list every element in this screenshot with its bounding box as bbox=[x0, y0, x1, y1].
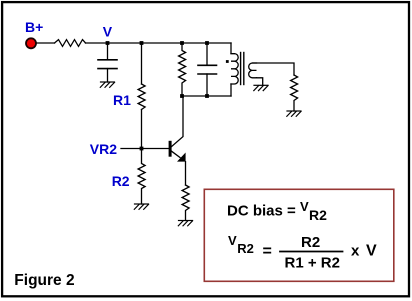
capacitor (tank) bbox=[198, 65, 217, 74]
wire emitter down bbox=[185, 162, 187, 185]
ground (secondary) bbox=[254, 85, 268, 90]
node junction R1 top bbox=[140, 41, 144, 45]
transformer T1 core bbox=[241, 53, 244, 85]
svg-text:R2: R2 bbox=[237, 241, 254, 256]
ground (R2) bbox=[134, 204, 148, 209]
node junction VR2 bbox=[140, 147, 144, 151]
wire top rail bbox=[86, 42, 232, 44]
transformer T1 secondary winding bbox=[249, 63, 257, 78]
wire bottom rail bbox=[182, 95, 231, 97]
svg-text:x: x bbox=[351, 242, 360, 259]
resistor R1 bbox=[138, 84, 145, 110]
svg-text:V: V bbox=[300, 199, 309, 214]
transistor Q1 base bar bbox=[169, 141, 172, 157]
wire secondary top to load resistor bbox=[252, 63, 294, 75]
svg-text:B+: B+ bbox=[25, 19, 43, 35]
ground (C1) bbox=[100, 82, 114, 87]
node junction V bbox=[106, 41, 110, 45]
svg-text:V: V bbox=[103, 23, 113, 39]
svg-text:VR2: VR2 bbox=[90, 141, 117, 157]
svg-text:R1: R1 bbox=[113, 92, 131, 108]
node junction tank resistor bottom bbox=[180, 94, 184, 98]
transistor Q1 emitter lead bbox=[172, 151, 181, 157]
svg-text:R2: R2 bbox=[309, 207, 327, 223]
capacitor C1 (bypass) bbox=[98, 60, 117, 69]
transformer T1 primary winding bbox=[231, 54, 238, 84]
wire V node to capacitor C1 bbox=[107, 43, 109, 60]
wire C1 to ground bbox=[107, 69, 109, 82]
svg-text:R1 + R2: R1 + R2 bbox=[285, 254, 340, 271]
wire B+ to series resistor bbox=[37, 42, 55, 44]
resistor R2 bbox=[138, 149, 145, 205]
transformer T1 phase dot bbox=[226, 60, 229, 63]
node junction tank cap top bbox=[205, 41, 209, 45]
resistor (tank, parallel) bbox=[179, 43, 186, 96]
node junction tank resistor top bbox=[180, 41, 184, 45]
terminal B+ (red dot) bbox=[26, 38, 36, 48]
resistor (emitter) bbox=[182, 185, 189, 221]
wire VR2 to transistor base bbox=[121, 148, 169, 150]
svg-text:R2: R2 bbox=[301, 234, 320, 251]
wire secondary bottom to ground bbox=[257, 78, 263, 86]
svg-text:Figure 2: Figure 2 bbox=[14, 272, 74, 289]
wire primary to bottom rail bbox=[230, 84, 232, 96]
transistor Q1 emitter arrow bbox=[177, 153, 186, 162]
formula box bbox=[204, 189, 393, 281]
svg-text:=: = bbox=[263, 243, 272, 260]
wire tank capacitor to bottom rail bbox=[206, 74, 208, 96]
transistor Q1 collector lead bbox=[172, 96, 184, 147]
svg-text:V: V bbox=[366, 242, 377, 259]
wire R1 to VR2 node bbox=[141, 110, 143, 149]
svg-text:R2: R2 bbox=[112, 173, 130, 189]
wire rail to R1 bbox=[141, 43, 143, 84]
resistor (series, horizontal) bbox=[55, 40, 86, 47]
ground (emitter) bbox=[178, 221, 192, 226]
resistor (secondary load) bbox=[291, 75, 298, 111]
ground (load resistor) bbox=[287, 111, 301, 116]
svg-text:V: V bbox=[228, 233, 237, 248]
node junction tank cap bottom bbox=[205, 94, 209, 98]
wire rail to tank capacitor bbox=[206, 43, 208, 65]
fraction bar bbox=[280, 251, 343, 253]
wire rail to transformer primary bbox=[231, 43, 234, 54]
svg-text:DC bias =: DC bias = bbox=[227, 202, 296, 219]
